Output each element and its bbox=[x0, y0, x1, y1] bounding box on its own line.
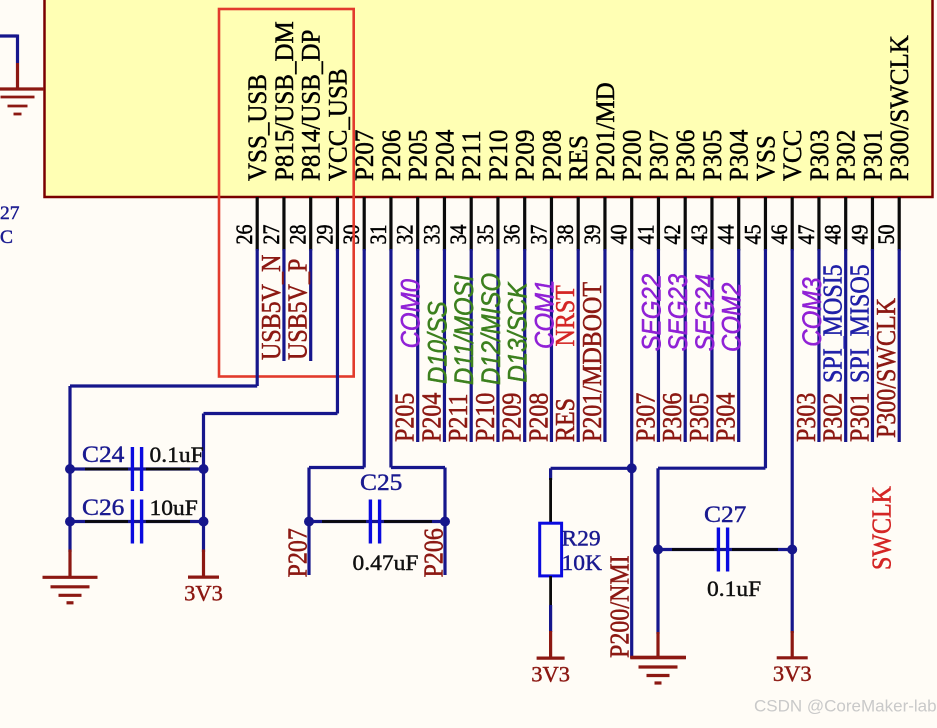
power 3V3 (C27) bbox=[773, 658, 812, 686]
svg-text:36: 36 bbox=[499, 224, 525, 244]
svg-text:27: 27 bbox=[0, 203, 19, 223]
svg-text:P302: P302 bbox=[831, 130, 861, 181]
lead C27 right bbox=[732, 548, 778, 551]
lead C25 right bbox=[384, 520, 432, 523]
wire pin 39 stub bbox=[603, 249, 606, 442]
svg-text:31: 31 bbox=[366, 225, 392, 245]
svg-text:44: 44 bbox=[713, 224, 739, 244]
pin 48 stub bbox=[844, 197, 847, 251]
op-amp/MCU IC body (yellow) U? bbox=[45, 0, 933, 197]
svg-text:CSDN @CoreMaker-lab: CSDN @CoreMaker-lab bbox=[754, 697, 937, 716]
pin 32 stub bbox=[416, 197, 419, 251]
wire (top-left horizontal) bbox=[0, 34, 18, 37]
pin 27 stub bbox=[282, 197, 285, 251]
wire pin 27 stub bbox=[282, 249, 285, 361]
svg-text:43: 43 bbox=[687, 225, 713, 245]
wire pin31 vertical bbox=[389, 249, 392, 468]
svg-text:P304: P304 bbox=[710, 393, 741, 442]
svg-text:46: 46 bbox=[767, 224, 793, 244]
svg-text:RES: RES bbox=[564, 135, 594, 181]
svg-text:D11/MOSI: D11/MOSI bbox=[450, 275, 479, 385]
svg-text:0.1uF: 0.1uF bbox=[707, 577, 761, 601]
svg-text:P210: P210 bbox=[484, 130, 514, 181]
wire pin45 vertical bbox=[764, 249, 767, 468]
wire pin 28 stub bbox=[309, 249, 312, 361]
power stem 3V3 (C27) bbox=[791, 631, 794, 658]
wire R29 to 3V3 bbox=[549, 605, 552, 632]
svg-text:42: 42 bbox=[660, 225, 686, 245]
pin 30 stub bbox=[363, 197, 366, 251]
junction bbox=[787, 545, 797, 555]
svg-text:47: 47 bbox=[794, 224, 820, 244]
pin 38 stub bbox=[577, 197, 580, 251]
pin 31 stub bbox=[389, 197, 392, 251]
svg-text:P305: P305 bbox=[698, 130, 728, 181]
svg-text:39: 39 bbox=[580, 225, 606, 245]
lead C25 left bbox=[322, 520, 366, 523]
svg-text:37: 37 bbox=[526, 224, 552, 244]
ground (top-left) bbox=[1, 97, 35, 114]
wire pin45 horizontal (C27 rail) bbox=[658, 467, 765, 470]
svg-text:34: 34 bbox=[446, 224, 472, 244]
pin 50 stub bbox=[898, 197, 901, 251]
svg-text:C26: C26 bbox=[82, 495, 124, 520]
lead R29 top bbox=[549, 478, 552, 523]
svg-text:P200/NMI: P200/NMI bbox=[604, 555, 635, 658]
svg-text:30: 30 bbox=[339, 225, 365, 245]
svg-text:P300/SWCLK: P300/SWCLK bbox=[871, 298, 902, 438]
svg-text:P208: P208 bbox=[537, 130, 567, 181]
svg-text:P209: P209 bbox=[510, 130, 540, 181]
svg-text:38: 38 bbox=[553, 225, 579, 245]
svg-text:C27: C27 bbox=[704, 502, 746, 527]
wire pin 47 stub bbox=[817, 249, 820, 442]
pin 41 stub bbox=[657, 197, 660, 251]
wire pin 35 stub bbox=[496, 249, 499, 442]
capacitor C26 bbox=[132, 500, 141, 544]
svg-text:C24: C24 bbox=[82, 442, 124, 467]
wire P200 to ground (merged with ground bar) bbox=[630, 656, 686, 659]
wire C24 left leg bbox=[68, 386, 71, 552]
wire pin 38 stub bbox=[577, 249, 580, 442]
svg-text:VSS_USB: VSS_USB bbox=[243, 74, 273, 181]
svg-text:35: 35 bbox=[473, 225, 499, 245]
lead C26 right bbox=[146, 520, 190, 523]
svg-text:49: 49 bbox=[847, 225, 873, 245]
svg-text:48: 48 bbox=[820, 225, 846, 245]
svg-text:32: 32 bbox=[392, 225, 418, 245]
svg-text:SEG24: SEG24 bbox=[691, 274, 720, 351]
pin 29 stub bbox=[336, 197, 339, 251]
pin 39 stub bbox=[603, 197, 606, 251]
svg-text:D12/MISO: D12/MISO bbox=[477, 273, 506, 385]
svg-text:3V3: 3V3 bbox=[773, 661, 812, 686]
pin 42 stub bbox=[684, 197, 687, 251]
svg-text:33: 33 bbox=[419, 225, 445, 245]
pin 46 stub bbox=[791, 197, 794, 251]
svg-text:28: 28 bbox=[285, 225, 311, 245]
power stem gnd (C27) bbox=[656, 632, 659, 658]
svg-text:26: 26 bbox=[232, 224, 258, 244]
svg-text:C25: C25 bbox=[360, 470, 402, 495]
wire pin 41 stub bbox=[657, 249, 660, 442]
pin 37 stub bbox=[550, 197, 553, 251]
wire pin 42 stub bbox=[684, 249, 687, 442]
svg-text:P304: P304 bbox=[724, 129, 754, 181]
svg-text:COM0: COM0 bbox=[397, 279, 426, 348]
capacitor C27 bbox=[718, 528, 727, 572]
capacitor C24 bbox=[132, 447, 141, 491]
svg-text:R29: R29 bbox=[562, 526, 601, 550]
wire C26 row bbox=[70, 520, 204, 523]
wire C27 left leg bbox=[656, 468, 659, 634]
wire C27 row bbox=[658, 548, 792, 551]
wire C25 right leg bbox=[443, 468, 446, 576]
pin 43 stub bbox=[710, 197, 713, 251]
svg-text:0.47uF: 0.47uF bbox=[353, 551, 419, 575]
wire pin29 vertical bbox=[336, 249, 339, 414]
svg-text:P206: P206 bbox=[377, 130, 407, 181]
wire pin26 horizontal bbox=[70, 384, 257, 387]
svg-text:C: C bbox=[0, 227, 13, 247]
svg-text:P204: P204 bbox=[430, 129, 460, 181]
wire pin 44 stub bbox=[737, 249, 740, 442]
wire pin31 horizontal bbox=[391, 466, 445, 469]
power stem 3V3 (R29) bbox=[549, 631, 552, 658]
svg-text:P200: P200 bbox=[617, 130, 647, 181]
power stem gnd (C26) bbox=[68, 550, 71, 578]
pin 35 stub bbox=[496, 197, 499, 251]
wire pin 49 stub bbox=[871, 249, 874, 442]
svg-text:P201/MD: P201/MD bbox=[591, 82, 621, 181]
lead C24 left bbox=[85, 468, 128, 471]
svg-text:P815/USB_DM: P815/USB_DM bbox=[270, 21, 300, 181]
ground (below C26) bbox=[43, 577, 98, 603]
svg-text:40: 40 bbox=[606, 225, 632, 245]
svg-text:VCC_USB: VCC_USB bbox=[323, 68, 353, 181]
pin 36 stub bbox=[523, 197, 526, 251]
svg-text:P814/USB_DP: P814/USB_DP bbox=[296, 30, 326, 181]
pin 45 stub bbox=[764, 197, 767, 251]
svg-text:SEG22: SEG22 bbox=[637, 274, 666, 351]
junction bbox=[65, 464, 75, 474]
resistor R29 bbox=[540, 523, 562, 576]
capacitor C25 bbox=[370, 500, 379, 544]
svg-text:P306: P306 bbox=[671, 130, 701, 181]
svg-text:3V3: 3V3 bbox=[184, 581, 223, 606]
pin 47 stub bbox=[817, 197, 820, 251]
wire pin30 horizontal bbox=[309, 466, 364, 469]
wire C25 row bbox=[309, 520, 445, 523]
wire pin 32 stub bbox=[416, 249, 419, 442]
junction bbox=[65, 517, 75, 527]
power stem (top-left) bbox=[16, 63, 19, 89]
svg-text:50: 50 bbox=[874, 225, 900, 245]
wire pin 33 stub bbox=[443, 249, 446, 442]
svg-text:3V3: 3V3 bbox=[531, 662, 570, 687]
svg-text:45: 45 bbox=[740, 225, 766, 245]
svg-text:10K: 10K bbox=[562, 551, 603, 575]
svg-text:10uF: 10uF bbox=[150, 496, 198, 520]
svg-text:P301: P301 bbox=[858, 130, 888, 181]
svg-text:D13/SCK: D13/SCK bbox=[504, 281, 533, 382]
pin 49 stub bbox=[871, 197, 874, 251]
wire R29 top stub bbox=[549, 468, 552, 480]
lead C26 left bbox=[85, 520, 128, 523]
junction bbox=[199, 464, 209, 474]
svg-text:41: 41 bbox=[633, 225, 659, 245]
svg-text:P307: P307 bbox=[644, 129, 674, 181]
svg-text:P207: P207 bbox=[282, 528, 313, 577]
pin 44 stub bbox=[737, 197, 740, 251]
power 3V3 (R29) bbox=[531, 658, 570, 686]
svg-text:0.1uF: 0.1uF bbox=[150, 443, 204, 467]
wire pin30 vertical bbox=[363, 249, 366, 468]
ground (C27) bbox=[631, 658, 686, 684]
power 3V3 (C24 group) bbox=[184, 577, 223, 605]
svg-text:P205: P205 bbox=[403, 130, 433, 181]
wire pin 48 stub bbox=[844, 249, 847, 442]
wire pin 36 stub bbox=[523, 249, 526, 442]
wire pin40 vertical bbox=[630, 249, 633, 658]
junction bbox=[440, 517, 450, 527]
svg-text:SEG23: SEG23 bbox=[664, 274, 693, 351]
svg-text:P303: P303 bbox=[805, 130, 835, 181]
wire pin26 vertical bbox=[256, 249, 259, 386]
svg-text:COM2: COM2 bbox=[718, 283, 747, 352]
svg-text:P211: P211 bbox=[457, 131, 487, 181]
wire C24 row bbox=[70, 467, 204, 470]
svg-text:VSS: VSS bbox=[751, 135, 781, 181]
lead C24 right bbox=[146, 468, 190, 471]
wire pin 50 stub bbox=[898, 249, 901, 442]
svg-text:USB5V_P: USB5V_P bbox=[282, 259, 313, 360]
wire pin29 horizontal bbox=[204, 412, 338, 415]
junction bbox=[653, 545, 663, 555]
svg-text:VCC: VCC bbox=[778, 130, 808, 181]
junction bbox=[304, 517, 314, 527]
junction bbox=[199, 517, 209, 527]
pin 26 stub bbox=[256, 197, 259, 251]
svg-text:29: 29 bbox=[312, 225, 338, 245]
svg-text:SWCLK: SWCLK bbox=[866, 486, 897, 570]
pin 28 stub bbox=[309, 197, 312, 251]
power stem 3V3 (C24 group) bbox=[202, 550, 205, 578]
svg-text:P300/SWCLK: P300/SWCLK bbox=[885, 35, 915, 181]
red highlight box around USB pins bbox=[219, 9, 354, 377]
svg-text:P206: P206 bbox=[418, 528, 449, 577]
lead R29 bottom bbox=[549, 576, 552, 606]
svg-text:27: 27 bbox=[259, 224, 285, 244]
wire (top-left vertical) bbox=[16, 35, 19, 64]
pin 33 stub bbox=[443, 197, 446, 251]
svg-text:P201/MDBOOT: P201/MDBOOT bbox=[576, 282, 607, 442]
wire R29 top horizontal bbox=[551, 467, 632, 470]
pin 34 stub bbox=[470, 197, 473, 251]
ground bar wire (top-left) bbox=[0, 87, 44, 90]
junction (P200/R29) bbox=[627, 463, 637, 473]
lead C27 left bbox=[672, 548, 714, 551]
wire pin 34 stub bbox=[470, 249, 473, 442]
wire pin46 vertical bbox=[791, 249, 794, 633]
wire pin 37 stub bbox=[550, 249, 553, 442]
wire C25 left leg bbox=[307, 468, 310, 576]
wire C24 right leg bbox=[202, 414, 205, 553]
wire pin 43 stub bbox=[710, 249, 713, 442]
svg-text:D10/SS: D10/SS bbox=[423, 301, 452, 384]
pin 40 stub bbox=[630, 197, 633, 251]
